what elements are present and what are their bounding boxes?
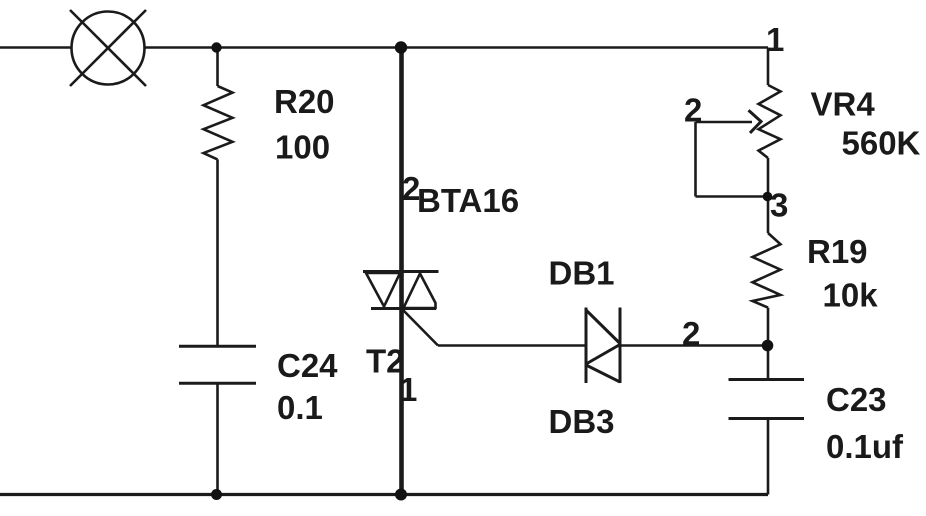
svg-text:1: 1 xyxy=(766,21,784,58)
svg-text:0.1: 0.1 xyxy=(277,389,323,426)
svg-text:R19: R19 xyxy=(807,233,868,270)
svg-text:10k: 10k xyxy=(823,277,879,314)
svg-text:DB1: DB1 xyxy=(549,255,615,292)
svg-text:VR4: VR4 xyxy=(811,86,876,123)
svg-text:R20: R20 xyxy=(274,83,335,120)
svg-text:560K: 560K xyxy=(842,125,921,162)
svg-text:2: 2 xyxy=(682,315,700,352)
svg-text:BTA16: BTA16 xyxy=(417,182,519,219)
svg-text:100: 100 xyxy=(275,129,330,166)
svg-text:DB3: DB3 xyxy=(549,403,615,440)
svg-text:3: 3 xyxy=(770,187,788,224)
svg-text:1: 1 xyxy=(399,371,417,408)
svg-text:2: 2 xyxy=(684,92,702,129)
svg-text:C24: C24 xyxy=(277,347,338,384)
svg-text:C23: C23 xyxy=(826,381,887,418)
svg-text:0.1uf: 0.1uf xyxy=(826,428,904,465)
